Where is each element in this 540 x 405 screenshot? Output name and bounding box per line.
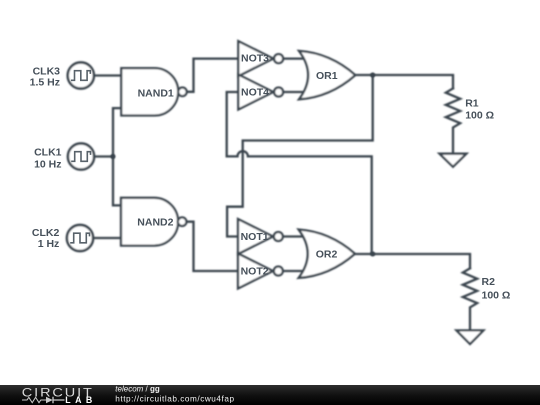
svg-text:R2: R2 [482,276,496,288]
gate NAND2 [121,198,186,246]
wire NAND1 input B / NAND2 input A bus [113,108,121,205]
gate NOT3 [238,41,283,76]
gate NOT2 [238,254,283,289]
wire OR1 output feedback to NOT1 input [227,75,373,237]
wire CLK2 to NAND2 input B [92,237,121,239]
wire OR1 output to R1 [355,75,453,88]
logo CIRCUIT LAB [22,385,97,405]
clock source CLK1 [68,143,94,169]
wire NAND2 output to NOT2 input [186,222,238,271]
ground below R2 [457,330,484,344]
wire OR2 output feedback to NOT4 input (with hop) [227,92,372,254]
svg-text:http://circuitlab.com/cwu4fap: http://circuitlab.com/cwu4fap [115,394,234,403]
svg-text:OR1: OR1 [316,70,338,82]
wire NAND1 output to NOT3 input [186,59,238,92]
svg-text:100 Ω: 100 Ω [482,290,511,302]
gate NAND1 [121,68,186,115]
gate NOT1 [238,219,283,254]
svg-text:NOT2: NOT2 [241,266,269,278]
svg-text:NAND2: NAND2 [137,217,173,229]
svg-text:1.5 Hz: 1.5 Hz [30,77,60,89]
clock waveform glyph CLK2 [70,233,89,243]
wire NOT1 output to OR2 input A [283,235,306,237]
wire CLK3 to NAND1 input A [93,74,121,76]
svg-text:OR2: OR2 [316,249,338,261]
gate OR1 [299,51,355,99]
junction CLK1/NAND bus [111,154,116,159]
svg-text:R1: R1 [465,98,479,110]
clock source CLK2 [67,225,93,251]
junction OR1 output [370,73,375,78]
svg-text:NOT1: NOT1 [241,231,269,243]
clock source CLK3 [68,62,94,88]
wire OR2 output to R2 [355,254,470,268]
junction OR2 output [370,252,375,257]
svg-text:100 Ω: 100 Ω [465,110,494,122]
ground below R1 [440,154,467,167]
clock waveform glyph CLK1 [71,152,90,162]
wire NOT3 output to OR1 input A [283,57,306,59]
svg-text:NOT3: NOT3 [241,53,269,65]
svg-text:telecom / gg: telecom / gg [115,385,160,394]
svg-text:10 Hz: 10 Hz [34,158,61,170]
resistor R1 [446,88,460,153]
svg-text:LAB: LAB [65,395,96,405]
wire NOT4 output to OR1 input B [283,91,306,93]
svg-text:1 Hz: 1 Hz [38,238,60,250]
gate NOT4 [238,75,283,110]
svg-text:NOT4: NOT4 [241,87,269,99]
svg-text:CLK1: CLK1 [34,147,62,159]
wire NOT2 output to OR2 input B [283,270,306,272]
resistor R2 [463,268,477,330]
wire CLK1 to junction [94,155,113,157]
gate OR2 [299,230,355,278]
clock waveform glyph CLK3 [71,71,90,81]
svg-text:NAND1: NAND1 [138,87,174,99]
